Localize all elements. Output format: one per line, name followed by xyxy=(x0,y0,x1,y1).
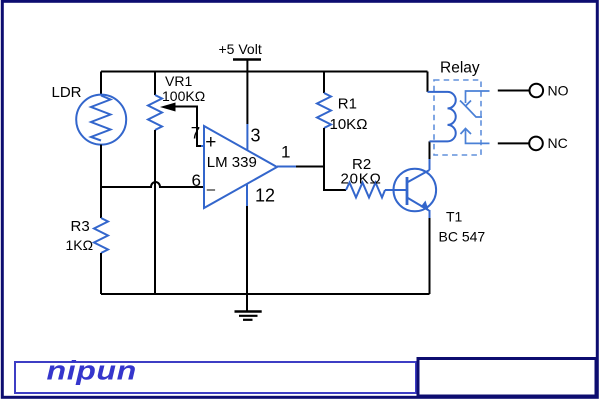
wire R3 bottom xyxy=(100,253,102,294)
svg-text:VR1: VR1 xyxy=(165,73,192,89)
wire output pin1 to R1 node xyxy=(296,166,324,168)
transistor T1 emitter diagonal xyxy=(407,198,429,211)
wire LDR bottom xyxy=(100,145,102,187)
svg-text:1: 1 xyxy=(281,143,290,162)
transistor T1 circle xyxy=(394,169,437,212)
svg-text:–: – xyxy=(207,181,216,198)
wire NO terminal xyxy=(498,90,530,92)
wire emitter to bottom rail xyxy=(429,218,431,294)
svg-text:Relay: Relay xyxy=(440,60,480,77)
wire coil bottom to collector xyxy=(429,141,431,159)
transistor T1 emitter arrowhead xyxy=(421,201,429,211)
resistor R3 zigzag xyxy=(94,218,108,253)
op-amp pin3 stub xyxy=(246,124,248,150)
svg-text:LDR: LDR xyxy=(52,84,82,101)
svg-text:R3: R3 xyxy=(71,218,90,235)
svg-text:nipun: nipun xyxy=(47,356,137,386)
relay NC contact xyxy=(466,130,490,144)
svg-text:100KΩ: 100KΩ xyxy=(162,88,205,104)
terminal NO circle xyxy=(530,84,544,98)
wire R1 top xyxy=(323,72,325,94)
resistor R2 zigzag xyxy=(346,183,385,198)
resistor R3 leads xyxy=(100,187,102,218)
svg-text:NO: NO xyxy=(548,83,569,99)
title block left box xyxy=(15,362,416,393)
op-amp plus input stub xyxy=(201,145,204,147)
svg-text:+5 Volt: +5 Volt xyxy=(219,41,262,57)
terminal NC circle xyxy=(529,137,543,151)
resistor R1 zigzag xyxy=(317,93,331,128)
transistor T1 collector stub xyxy=(429,158,431,170)
power +5V bar xyxy=(233,58,261,61)
svg-text:T1: T1 xyxy=(446,209,463,225)
transistor T1 emitter stub xyxy=(429,210,431,219)
svg-text:6: 6 xyxy=(192,171,201,190)
LDR circle xyxy=(76,95,126,145)
wire R2 to base xyxy=(385,189,407,191)
wire bottom rail xyxy=(101,293,430,295)
wire pin12 to ground xyxy=(246,206,248,311)
transistor T1 collector diagonal xyxy=(407,170,430,183)
op-amp output stub pin1 xyxy=(277,166,296,168)
VR1 wiper arrow xyxy=(160,103,176,112)
transistor T1 base bar xyxy=(406,177,409,205)
svg-text:3: 3 xyxy=(251,126,261,146)
svg-text:10KΩ: 10KΩ xyxy=(330,116,368,133)
svg-text:+: + xyxy=(205,132,216,153)
svg-text:7: 7 xyxy=(191,124,200,143)
wire NC terminal xyxy=(498,142,530,144)
relay NO contact xyxy=(466,91,490,103)
relay NC contact arrowhead xyxy=(461,129,472,135)
relay NO contact arrowhead xyxy=(460,101,471,107)
wire pin6 horizontal with hop xyxy=(101,182,204,187)
relay coil arcs xyxy=(447,92,455,141)
ground symbol xyxy=(235,310,262,313)
wire top rail xyxy=(101,71,428,73)
op-amp pin12 stub xyxy=(246,184,248,208)
wire rail to relay coil xyxy=(427,72,429,92)
wire VR1 bottom xyxy=(154,130,156,294)
relay dashed box xyxy=(434,80,481,155)
svg-text:12: 12 xyxy=(255,186,275,206)
svg-text:NC: NC xyxy=(548,135,568,151)
svg-text:BC 547: BC 547 xyxy=(439,229,486,245)
svg-text:1KΩ: 1KΩ xyxy=(66,237,94,253)
op-amp U1 LM339 triangle xyxy=(204,126,277,208)
LDR zigzag xyxy=(91,96,111,141)
relay coil bottom lead xyxy=(430,140,448,142)
relay NO contact arm xyxy=(466,106,483,117)
wire LDR top xyxy=(100,72,102,95)
wire R1 bottom to node and down xyxy=(324,128,346,190)
potentiometer VR1 zigzag xyxy=(148,95,162,130)
svg-text:20KΩ: 20KΩ xyxy=(341,171,382,188)
relay coil top lead xyxy=(428,91,448,93)
title block right box xyxy=(418,359,596,397)
svg-text:R1: R1 xyxy=(338,96,357,113)
wire +5V stem / pin3 xyxy=(246,60,248,125)
wire wiper to pin7 xyxy=(175,107,201,147)
svg-text:LM 339: LM 339 xyxy=(207,154,257,171)
wire VR1 top xyxy=(154,72,156,96)
